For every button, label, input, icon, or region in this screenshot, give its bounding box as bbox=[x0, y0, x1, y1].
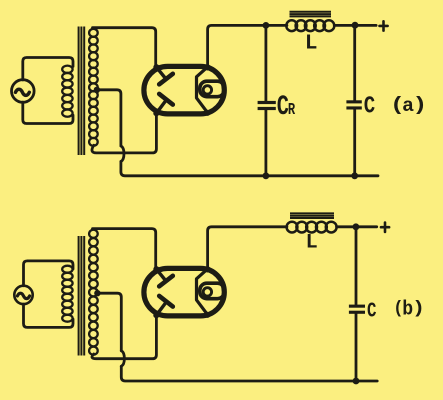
capacitor C1 plates bbox=[346, 100, 361, 109]
wire V2 cathode to filter input bbox=[208, 25, 287, 67]
tube V2 cathode sleeve bbox=[200, 81, 225, 97]
junction node bottom of CR bbox=[263, 172, 270, 179]
wire V3 top to T2 primary bbox=[24, 261, 74, 286]
wire T2 secondary bottom to tube V4 lower anode bbox=[92, 316, 156, 359]
wire V4 cathode to filter input (b) bbox=[208, 227, 287, 269]
svg-text:C: C bbox=[367, 300, 376, 324]
tube V4 lower anode plate bbox=[159, 296, 173, 307]
junction tube V2 pins bbox=[153, 64, 210, 116]
wire T1 center tap lead bbox=[97, 90, 121, 146]
capacitor C1 bottom lead bbox=[353, 110, 356, 176]
tube V2 lower anode plate bbox=[159, 94, 173, 105]
tube V2 upper anode plate bbox=[159, 74, 173, 85]
junction tube V4 pins bbox=[153, 266, 210, 318]
filter choke L2 core bbox=[290, 213, 334, 218]
capacitor C2 plates bbox=[349, 305, 365, 314]
wire T2 center tap lead bbox=[97, 293, 121, 351]
label (b) bbox=[393, 297, 425, 320]
tube V2 upper anode lead bbox=[156, 67, 165, 78]
tube V2 lower anode lead bbox=[156, 101, 165, 113]
junction node bottom of C1 bbox=[351, 172, 358, 179]
svg-text:): ) bbox=[412, 299, 425, 318]
plus output terminal (a) bbox=[380, 21, 388, 30]
transformer T2 secondary winding bbox=[89, 230, 98, 355]
junction node top of C1 bbox=[352, 22, 359, 29]
wire crossover hop bbox=[121, 146, 124, 162]
wire T1 secondary bottom to tube V2 lower anode bbox=[92, 114, 156, 153]
junction node top of CR bbox=[263, 22, 270, 29]
wire choke to output (b) bbox=[337, 225, 377, 228]
svg-text:L: L bbox=[306, 232, 318, 255]
capacitor C2 top lead bbox=[355, 227, 358, 305]
transformer T2 core bbox=[79, 236, 85, 356]
svg-text:R: R bbox=[288, 101, 296, 119]
junction node top of C2 bbox=[353, 223, 360, 230]
tube V4 upper anode lead bbox=[156, 269, 165, 280]
junction node bottom of C2 bbox=[353, 378, 360, 385]
plus output terminal (b) bbox=[381, 223, 389, 232]
wire V1 bottom to T1 primary bbox=[23, 102, 73, 123]
transformer T1 primary winding bbox=[62, 66, 72, 117]
junction center tap (b) bbox=[94, 290, 100, 296]
wire choke to output (a) bbox=[334, 24, 376, 27]
tube V4 lower anode lead bbox=[156, 303, 165, 315]
svg-text:C: C bbox=[277, 92, 289, 123]
capacitor CR top lead bbox=[264, 25, 267, 101]
tube V4 cathode sleeve bbox=[200, 283, 225, 299]
wire V1 top to T1 primary bbox=[23, 58, 73, 80]
junction center tap bbox=[94, 87, 100, 93]
tube V4 upper anode plate bbox=[159, 276, 173, 287]
wire crossover hop (b) bbox=[121, 351, 124, 367]
svg-text:L: L bbox=[305, 33, 318, 56]
filter choke L1 core bbox=[290, 12, 332, 17]
ac source V1 bbox=[11, 80, 34, 103]
svg-text:C: C bbox=[364, 93, 375, 121]
wire T2 secondary top to tube V4 upper anode bbox=[93, 229, 156, 269]
label (a) bbox=[390, 93, 427, 117]
ac source V3 bbox=[14, 286, 32, 304]
filter choke L2 winding bbox=[287, 222, 337, 233]
rectifier tube V4 envelope bbox=[144, 268, 224, 316]
svg-text:): ) bbox=[412, 93, 427, 116]
capacitor CR plates bbox=[258, 101, 276, 110]
capacitor C2 bottom lead bbox=[355, 314, 358, 381]
tube V4 cathode shield bbox=[197, 270, 208, 315]
capacitor C1 top lead bbox=[353, 25, 356, 100]
wire T1 secondary top to tube V2 upper anode bbox=[93, 28, 156, 67]
wire V3 bottom to T2 primary bbox=[24, 304, 74, 327]
transformer T1 core bbox=[79, 27, 85, 156]
wire bottom rail (a) bbox=[121, 162, 378, 176]
transformer T2 primary winding bbox=[62, 266, 72, 322]
tube V2 cathode shield bbox=[197, 68, 208, 113]
filter choke L1 winding bbox=[286, 20, 334, 31]
capacitor CR bottom lead bbox=[264, 110, 267, 176]
tube V4 heater bbox=[203, 288, 211, 296]
tube V2 heater bbox=[203, 86, 211, 94]
transformer T1 secondary winding bbox=[89, 29, 98, 146]
rectifier tube V2 envelope bbox=[144, 66, 224, 114]
wire bottom rail (b) bbox=[121, 366, 377, 381]
